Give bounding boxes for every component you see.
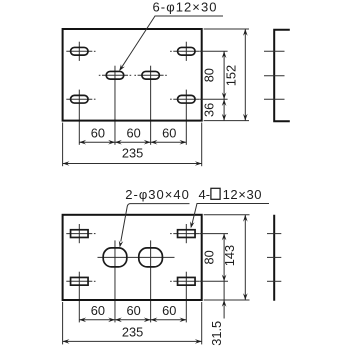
dimension line 60-60-60 (bottom view)	[79, 319, 186, 321]
leader arrowhead 4-sq12x30	[190, 221, 194, 228]
svg-text:36: 36	[202, 103, 217, 117]
center line horizontal, slot A5 bottom-left	[66, 98, 95, 100]
center line vertical, slot A6 bottom-right	[185, 90, 187, 145]
dimension line 60-60-60 (top view)	[79, 141, 186, 143]
square slot B2 top-right (square hole 12x30)	[178, 230, 196, 238]
svg-text:60: 60	[91, 303, 105, 318]
extension line right, bottom plate bottom edge	[204, 299, 250, 301]
center line horizontal, square slot B2 top-right	[170, 233, 199, 235]
label 4-sq12x30 (square symbol)	[211, 188, 220, 199]
slot A1 top-left (oblong hole 12x30)	[71, 47, 89, 55]
svg-text:80: 80	[202, 68, 217, 82]
svg-text:60: 60	[126, 125, 140, 140]
center line vertical + extension, oblong hole left	[114, 240, 116, 322]
center line vertical, slot A5 bottom-left	[78, 90, 80, 145]
extension line right, bottom view top slot row	[200, 233, 229, 235]
center line vertical, slot A1 top-left	[78, 42, 80, 61]
center line horizontal, square slot B3 bottom-left	[66, 280, 95, 282]
slot A5 bottom-left (oblong hole 12x30)	[71, 95, 89, 103]
center line horizontal, slot A2 top-right	[170, 50, 199, 52]
side view (bottom) tick, top slot row	[267, 233, 281, 235]
center line horizontal through oblong holes	[98, 256, 175, 258]
center line horizontal, square slot B4 bottom-right	[170, 280, 199, 282]
side view (bottom) tick, bottom slot row	[267, 280, 281, 282]
svg-text:235: 235	[122, 324, 143, 339]
center line horizontal, square slot B1 top-left	[66, 233, 95, 235]
extension line right, plate top edge	[204, 28, 249, 30]
center line vertical, slot A2 top-right	[185, 42, 187, 61]
leader line for label 6-phi12x30	[120, 16, 223, 70]
extension line right, bottom plate top edge	[204, 214, 250, 216]
svg-text:60: 60	[162, 303, 176, 318]
leader line for label 2-phi30x40	[121, 204, 190, 242]
extension line right for 235 (bottom view)	[201, 302, 203, 344]
dimension line 36	[223, 99, 225, 120]
svg-text:4-: 4-	[199, 187, 211, 202]
center line vertical, slot A4 middle-right	[150, 66, 152, 145]
slot A4 middle-right (oblong hole 12x30)	[142, 71, 160, 79]
svg-text:6-φ12×30: 6-φ12×30	[153, 0, 217, 14]
svg-text:12×30: 12×30	[223, 187, 262, 202]
svg-text:60: 60	[162, 125, 176, 140]
oblong hole left (phi30x40)	[103, 248, 127, 267]
center line vertical, slot A3 middle-left	[114, 66, 116, 145]
center line vertical, square slot B2 top-right	[185, 224, 187, 243]
slot A3 middle-left (oblong hole 12x30)	[106, 71, 124, 79]
svg-text:235: 235	[122, 146, 143, 161]
svg-text:2-φ30×40: 2-φ30×40	[125, 187, 189, 202]
leader line for label 4-sq12x30	[191, 204, 269, 227]
center line vertical, square slot B1 top-left	[78, 224, 80, 243]
svg-text:60: 60	[91, 125, 105, 140]
square slot B1 top-left (square hole 12x30)	[71, 230, 89, 238]
center line horizontal, slot A6 bottom-right	[170, 98, 199, 100]
dimension line 235 (bottom view)	[63, 340, 202, 342]
slot A6 bottom-right (oblong hole 12x30)	[178, 95, 196, 103]
center line vertical, square slot B4 bottom-right	[185, 272, 187, 323]
leader arrowhead 6-phi12x30	[119, 64, 125, 71]
square slot B4 bottom-right (square hole 12x30)	[178, 277, 196, 285]
slot A2 top-right (oblong hole 12x30)	[178, 47, 196, 55]
dimension line 80 (bottom view)	[223, 234, 225, 282]
center line vertical, square slot B3 bottom-left	[78, 272, 80, 323]
svg-text:143: 143	[222, 245, 237, 266]
square slot B3 bottom-left (square hole 12x30)	[71, 277, 89, 285]
oblong hole right (phi30x40)	[139, 248, 163, 267]
extension line right, top slot row	[200, 50, 228, 52]
extension line left for 235 (top view)	[62, 123, 64, 167]
top plate outline	[63, 29, 202, 121]
svg-text:80: 80	[202, 250, 217, 264]
side view (bottom) tick, middle row	[267, 256, 281, 258]
side view of bottom plate: flat plate	[273, 215, 275, 301]
extension line right, bottom view bottom slot row	[200, 280, 229, 282]
side view of top plate: C-channel profile	[274, 30, 290, 122]
extension line right, bottom slot row	[200, 98, 228, 100]
dimension line 31.5 (outside arrow)	[223, 281, 225, 318]
svg-text:152: 152	[224, 65, 239, 86]
dimension line 143	[244, 215, 246, 300]
dimension line 152	[244, 29, 246, 121]
side view (top) tick, middle slot row	[264, 75, 285, 77]
center line horizontal, slot A1 top-left	[66, 50, 95, 52]
side view (top) tick, bottom slot row	[264, 98, 285, 100]
leader arrowhead 2-phi30x40	[119, 240, 124, 247]
center line vertical + extension, oblong hole right	[150, 240, 152, 322]
extension line left for 235 (bottom view)	[62, 302, 64, 344]
dimension line 235 (top view)	[63, 163, 202, 165]
extension line right for 235 (top view)	[201, 123, 203, 167]
center line horizontal, slot A3 middle-left	[99, 74, 131, 76]
center line horizontal, slot A4 middle-right	[134, 74, 166, 76]
side view (top) tick, top slot row	[264, 50, 285, 52]
svg-text:60: 60	[126, 303, 140, 318]
extension line right, plate bottom edge	[204, 120, 249, 122]
bottom plate outline	[63, 215, 202, 300]
dimension line 80 (top view)	[223, 51, 225, 99]
svg-text:31.5: 31.5	[209, 321, 224, 346]
